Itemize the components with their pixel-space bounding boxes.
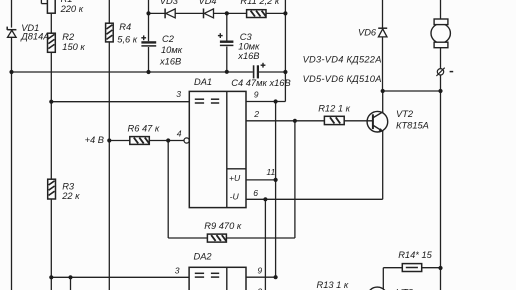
wire top vertical to VD6 <box>382 0 384 28</box>
svg-text:+4 В: +4 В <box>85 135 104 145</box>
node dot bottom branch <box>68 275 72 279</box>
wire R6 junction down to R9 <box>167 141 169 239</box>
resistor R4 <box>106 23 114 42</box>
svg-text:R9 470 к: R9 470 к <box>204 221 242 231</box>
node dot pin11 <box>274 178 278 182</box>
svg-text:VT2: VT2 <box>396 109 414 119</box>
resistor R3 <box>48 179 56 199</box>
wire R14 corner down to VT3 <box>382 268 384 290</box>
wire R1 to R2 <box>50 13 52 33</box>
svg-text:150 к: 150 к <box>62 42 85 52</box>
wire R6 to pin 4 bubble <box>149 140 184 142</box>
wire DA1 pin 9 <box>246 101 285 103</box>
wire pin2 to R9 vertical <box>294 121 296 238</box>
wire terminal down right side <box>440 75 442 290</box>
wire vertical C4/R11 branch <box>284 0 286 102</box>
node dot VT2 collector <box>381 89 385 93</box>
capacitor C3 <box>218 33 234 45</box>
wire top vertical to R4 <box>108 0 110 23</box>
op-amp DA2 (cut off at bottom) <box>189 267 246 290</box>
svg-text:VD6: VD6 <box>358 27 377 37</box>
diode VD4 <box>204 9 214 19</box>
svg-text:10мк: 10мк <box>238 42 260 52</box>
svg-text:R4: R4 <box>119 22 131 32</box>
wire rail C4 right part <box>259 71 286 73</box>
resistor R6 <box>130 137 150 145</box>
resistor R12 <box>324 116 344 124</box>
wire R2 down to R3 <box>50 52 52 179</box>
svg-text:R2: R2 <box>62 32 75 42</box>
svg-text:2: 2 <box>253 109 259 119</box>
resistor R14 <box>402 264 421 272</box>
wire R14 left corner <box>383 267 402 269</box>
svg-text:220 к: 220 к <box>60 4 84 14</box>
wire R4 down to bottom <box>108 42 110 290</box>
wire motor to terminal <box>440 48 442 69</box>
svg-text:C2: C2 <box>162 34 175 44</box>
svg-text:+U: +U <box>229 173 241 183</box>
svg-text:-U: -U <box>230 192 240 202</box>
svg-text:4: 4 <box>177 128 182 138</box>
node dot pin2/R9 <box>293 119 297 123</box>
svg-text:R6 47 к: R6 47 к <box>128 123 160 133</box>
node dot +4V <box>107 138 111 142</box>
svg-text:R14* 15: R14* 15 <box>398 250 432 260</box>
wire rail y72 left part <box>12 71 253 73</box>
wire DA1 pin 2 <box>246 120 324 122</box>
terminal minus <box>436 68 453 76</box>
svg-text:КТ815А: КТ815А <box>396 120 429 130</box>
wire left vertical below VD1 <box>11 37 13 290</box>
svg-text:R3: R3 <box>62 181 75 191</box>
svg-text:DA2: DA2 <box>194 252 213 262</box>
node dot R3/bottom rail <box>49 275 53 279</box>
wire DA1 pin 6 <box>246 198 383 200</box>
svg-text:Д814А: Д814А <box>20 32 49 42</box>
diode VD6 <box>378 28 387 37</box>
svg-text:VD3-VD4 КД522А: VD3-VD4 КД522А <box>303 55 382 65</box>
node dot C3 top <box>225 11 229 15</box>
diode VD3 <box>165 9 175 19</box>
node dot pin9/+U <box>274 99 278 103</box>
resistor R9 <box>207 234 226 242</box>
wire top vertical to C2 <box>148 0 150 41</box>
node dot DA2 pin9 <box>274 275 278 279</box>
node dot R2/pin3 <box>49 100 53 104</box>
wire DA2 pin 9 <box>246 276 276 278</box>
svg-text:11: 11 <box>266 167 275 177</box>
svg-text:2: 2 <box>256 287 262 290</box>
wire R11 to right vertical <box>266 12 285 14</box>
svg-text:R11 2,2 к: R11 2,2 к <box>240 0 279 6</box>
node dot C4 right <box>283 70 287 74</box>
node dot R14 right <box>438 266 442 270</box>
svg-text:6: 6 <box>253 188 258 198</box>
wire VT2 emitter down <box>382 131 384 199</box>
svg-text:9: 9 <box>254 90 259 100</box>
wire VT2 collector up <box>382 91 384 112</box>
svg-text:VD3: VD3 <box>160 0 179 6</box>
wire collector node to motor line <box>383 90 441 92</box>
node dot pin6 <box>263 197 267 201</box>
wire DA2 pin 3 (bottom rail) <box>51 276 189 278</box>
svg-text:x16В: x16В <box>237 51 259 61</box>
wire +U supply vertical <box>275 102 277 278</box>
resistor R11 <box>247 10 266 18</box>
svg-text:R13 1 к: R13 1 к <box>317 280 349 290</box>
svg-text:3: 3 <box>175 266 180 276</box>
wire DA1 pin 3 <box>51 101 189 103</box>
svg-text:9: 9 <box>257 266 262 276</box>
svg-text:10мк: 10мк <box>161 45 183 55</box>
wire R14 to right line <box>422 267 441 269</box>
svg-text:5,6 к: 5,6 к <box>117 35 138 45</box>
wire R3 down to bottom <box>50 199 52 290</box>
wire DA1 pin 11 <box>246 179 276 181</box>
wire motor top lead <box>440 0 442 19</box>
capacitor C2 <box>141 35 156 46</box>
wire top vertical to C3 <box>226 13 228 40</box>
resistor R1 (cut off at top) <box>41 0 55 13</box>
wire branch down at x70 <box>70 277 72 290</box>
node dot VD1/rail <box>9 70 13 74</box>
node dot C3 bottom <box>225 70 229 74</box>
svg-text:x16В: x16В <box>159 56 181 66</box>
transistor VT2 <box>367 111 388 132</box>
svg-text:DA1: DA1 <box>194 77 212 87</box>
node dot motor line <box>438 89 442 93</box>
svg-text:VD4: VD4 <box>199 0 217 6</box>
resistor R2 <box>48 33 56 52</box>
wire R9 to riser <box>226 237 295 239</box>
wire top row: junction to VD3 <box>149 12 166 14</box>
node dot C2 bottom <box>146 70 150 74</box>
svg-text:3: 3 <box>176 89 181 99</box>
node dot R11 right <box>283 11 287 15</box>
zener diode VD1 <box>7 27 16 38</box>
inversion bubble pin 4 DA1 <box>184 138 189 143</box>
op-amp DA1 <box>189 91 246 207</box>
wire corner to R9 <box>168 237 207 239</box>
wire C3 to rail <box>226 47 228 72</box>
motor M1 <box>431 19 450 48</box>
wire pin6 down vertical <box>264 199 266 290</box>
wire R12 to VT2 base <box>344 120 372 122</box>
wire C2 to rail <box>148 47 150 72</box>
svg-text:C4 47мк x16В: C4 47мк x16В <box>231 78 290 88</box>
svg-text:VD5-VD6 КД510А: VD5-VD6 КД510А <box>303 74 382 84</box>
capacitor C4 <box>254 63 266 79</box>
node dot C2 top <box>146 11 150 15</box>
wire VD4 to R11 <box>214 12 247 14</box>
svg-text:22 к: 22 к <box>61 191 80 201</box>
node dot R6/pin4 <box>166 138 170 142</box>
node +4 V / wire to R6 <box>109 140 130 142</box>
svg-text:R12 1 к: R12 1 к <box>318 103 350 113</box>
transistor VT3 (cut off) <box>367 287 387 290</box>
wire VD6 down to collector node <box>382 37 384 91</box>
wire left vertical top (to VD1) <box>11 0 13 28</box>
wire VD3 to VD4 <box>175 12 203 14</box>
